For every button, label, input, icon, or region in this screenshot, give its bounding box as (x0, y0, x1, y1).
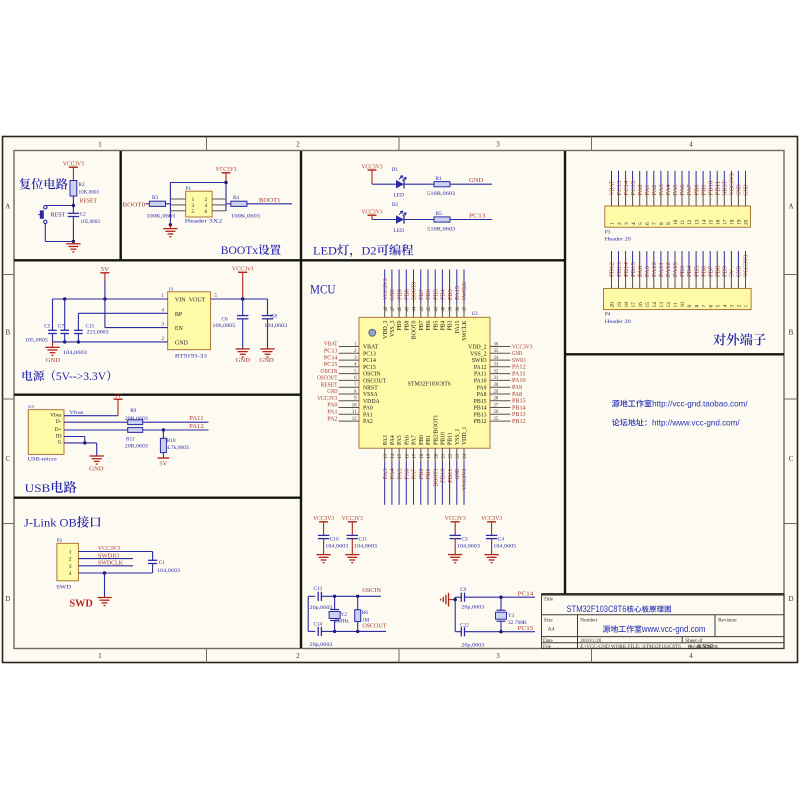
svg-text:R10: R10 (167, 438, 176, 444)
svg-text:15: 15 (398, 453, 403, 458)
svg-text:C1: C1 (159, 560, 165, 566)
section title 复位电路 (19, 178, 67, 189)
svg-text:2016/1/26: 2016/1/26 (580, 638, 601, 644)
svg-text:R6: R6 (362, 610, 368, 616)
ground power left (52, 342, 54, 347)
svg-text:38: 38 (456, 306, 461, 311)
svg-text:510R,0603: 510R,0603 (427, 191, 455, 197)
svg-text:Header 3X2: Header 3X2 (185, 218, 223, 224)
svg-text:2: 2 (69, 557, 72, 563)
svg-text:PC13: PC13 (324, 349, 338, 355)
crystal Y3 32.768K (500, 597, 502, 610)
svg-text:2: 2 (737, 305, 743, 308)
svg-text:C9: C9 (460, 587, 466, 593)
svg-text:D: D (5, 595, 10, 603)
svg-text:VSSA: VSSA (363, 392, 379, 398)
svg-text:1: 1 (744, 305, 750, 308)
MCU U2 STM32F103C8T6 body (359, 317, 490, 448)
pin stubs P1 (170, 198, 185, 200)
svg-text:PA8: PA8 (638, 266, 644, 277)
svg-text:PB9: PB9 (397, 289, 403, 300)
svg-text:PA4: PA4 (390, 435, 396, 445)
svg-text:2: 2 (296, 652, 300, 660)
wire led D2 (372, 219, 396, 221)
header P4 box (604, 288, 752, 309)
LED D2 (396, 215, 404, 223)
svg-text:PB15: PB15 (631, 262, 637, 277)
svg-text:OSCOUT: OSCOUT (363, 379, 387, 385)
pin1 marker circle (369, 329, 376, 336)
svg-text:6: 6 (205, 209, 208, 215)
capacitor C13 (317, 592, 319, 601)
svg-text:P4: P4 (605, 312, 611, 318)
svg-text:C: C (5, 455, 10, 463)
svg-text:D2: D2 (392, 202, 399, 208)
svg-text:PB0: PB0 (419, 469, 425, 480)
svg-text:RESET: RESET (80, 198, 98, 204)
svg-text:2: 2 (617, 222, 623, 225)
svg-text:45: 45 (405, 306, 410, 311)
svg-text:PA11: PA11 (512, 371, 526, 377)
ground cap C11 (345, 554, 359, 556)
capacitor C12 (460, 627, 462, 636)
section divider lines (14, 151, 784, 648)
svg-text:R11: R11 (126, 436, 135, 442)
MCU right pins 36-25 (490, 346, 510, 348)
section title 对外端子 (713, 333, 766, 345)
file path (580, 644, 714, 650)
svg-text:20p,0603: 20p,0603 (461, 605, 484, 611)
MCU top pins 48-37 wires (384, 303, 386, 317)
svg-text:8: 8 (659, 222, 665, 225)
svg-text:PA12: PA12 (512, 365, 526, 371)
capacitor C2 (68, 212, 79, 214)
wire VOUT line (211, 298, 268, 300)
svg-text:SWD: SWD (56, 584, 71, 590)
svg-text:PB12: PB12 (610, 262, 616, 277)
svg-text:GND: GND (175, 341, 189, 347)
svg-text:6: 6 (708, 305, 714, 308)
svg-text:PA2: PA2 (363, 419, 373, 425)
svg-text:31: 31 (494, 376, 499, 381)
svg-text:PC14: PC14 (624, 181, 630, 196)
ground C6 (236, 348, 250, 350)
svg-text:R9: R9 (130, 408, 136, 414)
svg-text:105,0805: 105,0805 (25, 337, 48, 343)
svg-text:Vbus: Vbus (50, 413, 61, 419)
svg-text:GND: GND (744, 184, 750, 196)
capacitor C9 (460, 593, 462, 602)
svg-text:22: 22 (449, 453, 454, 458)
capacitor C14 (317, 627, 319, 636)
svg-text:8: 8 (694, 305, 700, 308)
svg-text:BP: BP (175, 312, 183, 318)
capacitor C11 (347, 534, 358, 536)
svg-text:PA11: PA11 (474, 372, 487, 378)
header P1 3x2 (186, 191, 212, 217)
svg-text:PC13: PC13 (469, 214, 486, 220)
svg-text:104,0603: 104,0603 (264, 323, 287, 329)
svg-text:PA4: PA4 (666, 184, 672, 195)
ground cap C3 (448, 554, 462, 556)
svg-text:47: 47 (391, 306, 396, 311)
svg-text:C6: C6 (222, 317, 228, 323)
svg-text:1: 1 (98, 141, 102, 149)
section title J-Link OB接口 (24, 516, 100, 530)
svg-text:PB8: PB8 (716, 266, 722, 277)
svg-text:C11: C11 (359, 536, 368, 542)
svg-text:C8: C8 (271, 314, 277, 320)
svg-text:PC15: PC15 (631, 181, 637, 196)
ground bootx (169, 225, 171, 229)
MCU left pins 1-12 (339, 346, 359, 348)
svg-text:4: 4 (69, 571, 72, 577)
resistor R1 (434, 182, 450, 187)
svg-text:B: B (789, 329, 794, 337)
svg-text:U1: U1 (169, 286, 174, 291)
svg-text:PB7: PB7 (419, 289, 425, 300)
svg-text:VDD_1: VDD_1 (462, 427, 468, 445)
svg-text:PB1: PB1 (701, 184, 707, 195)
resistor R5 (434, 217, 450, 222)
svg-text:GND: GND (327, 389, 337, 395)
svg-text:PB11: PB11 (716, 181, 722, 196)
svg-text:BOOT0: BOOT0 (412, 320, 418, 339)
svg-text:C: C (789, 455, 794, 463)
svg-text:SWIO: SWIO (512, 358, 526, 364)
svg-text:Header 20: Header 20 (605, 319, 631, 325)
svg-text:SWCLK: SWCLK (462, 320, 468, 341)
title schematic name (567, 603, 671, 614)
svg-text:PB3: PB3 (448, 289, 454, 300)
svg-text:PA2: PA2 (327, 416, 337, 422)
svg-text:PB12: PB12 (512, 419, 526, 425)
svg-text:C12: C12 (460, 622, 469, 628)
svg-text:PA1: PA1 (645, 184, 651, 195)
svg-text:A: A (788, 203, 793, 211)
svg-text:1: 1 (69, 550, 72, 556)
svg-text:PA6: PA6 (404, 435, 410, 445)
svg-text:NRST: NRST (363, 385, 378, 391)
svg-text:PA3: PA3 (659, 184, 665, 195)
svg-text:VDD_2: VDD_2 (468, 345, 486, 351)
svg-text:PC14: PC14 (363, 358, 376, 364)
svg-text:OSCOUT: OSCOUT (317, 376, 338, 382)
svg-text:PB14: PB14 (474, 406, 487, 412)
svg-text:PA7: PA7 (412, 435, 418, 445)
svg-text:Size: Size (544, 617, 554, 623)
svg-text:27: 27 (494, 403, 499, 408)
svg-text:SWIO: SWIO (472, 358, 487, 364)
svg-text:PA15: PA15 (673, 262, 679, 277)
svg-text:17: 17 (413, 453, 418, 458)
svg-text:PA2: PA2 (652, 184, 658, 195)
svg-text:PA9: PA9 (512, 385, 522, 391)
svg-text:PA3: PA3 (383, 435, 389, 445)
svg-text:Number: Number (580, 617, 597, 623)
svg-text:LED: LED (394, 193, 405, 199)
svg-text:20: 20 (610, 302, 616, 308)
svg-text:14: 14 (652, 302, 658, 308)
resistor R2 (70, 181, 77, 197)
svg-text:7: 7 (652, 222, 658, 225)
svg-text:PA4: PA4 (390, 469, 396, 480)
svg-text:104,0605: 104,0605 (493, 544, 516, 550)
wire swd rows (78, 551, 152, 553)
svg-text:PA12: PA12 (666, 262, 672, 277)
svg-text:5V: 5V (159, 461, 168, 467)
svg-text:ID: ID (56, 433, 62, 439)
svg-text:U2: U2 (472, 312, 479, 317)
inner frame (14, 151, 784, 649)
svg-text:PB10: PB10 (441, 432, 447, 445)
svg-text:100K,0603: 100K,0603 (146, 214, 176, 220)
svg-text:16: 16 (716, 219, 722, 225)
svg-text:BOOT0: BOOT0 (412, 282, 418, 300)
wire ID (64, 436, 85, 438)
svg-text:GND: GND (236, 358, 251, 364)
svg-text:Y3: Y3 (508, 613, 515, 619)
svg-text:C5: C5 (44, 323, 50, 329)
svg-text:4: 4 (631, 222, 637, 225)
svg-text:20: 20 (434, 453, 439, 458)
section title USB电路 (25, 481, 77, 495)
svg-text:PA1: PA1 (363, 412, 373, 418)
svg-text:5: 5 (716, 305, 722, 308)
svg-text:R4: R4 (233, 195, 239, 201)
svg-text:PB5: PB5 (433, 320, 439, 330)
svg-text:12: 12 (666, 302, 672, 308)
svg-text:MCU: MCU (310, 283, 336, 297)
svg-text:3: 3 (624, 222, 630, 225)
section title LED灯 D2可编程 (313, 244, 413, 257)
svg-text:13: 13 (384, 453, 389, 458)
svg-text:VBAT: VBAT (324, 342, 338, 348)
svg-text:10: 10 (352, 403, 357, 408)
svg-text:GND: GND (737, 265, 743, 277)
svg-text:P1: P1 (186, 187, 192, 192)
svg-text:PB8: PB8 (405, 289, 411, 300)
resistor R3 (146, 203, 150, 205)
svg-text:PB11: PB11 (448, 469, 454, 483)
svg-text:PA10: PA10 (512, 378, 526, 384)
margin labels (5, 141, 793, 661)
svg-text:PA15: PA15 (455, 286, 461, 300)
svg-text:46: 46 (398, 306, 403, 311)
schematic sheet background (3, 137, 798, 663)
ground usb (90, 455, 104, 457)
svg-text:C4: C4 (498, 536, 504, 542)
svg-text:PC14: PC14 (324, 355, 338, 361)
svg-text:PB2/BOOT1: PB2/BOOT1 (433, 415, 439, 445)
svg-text:PB14: PB14 (512, 405, 526, 411)
svg-text:29: 29 (494, 390, 499, 395)
svg-text:VBAT: VBAT (363, 345, 379, 351)
svg-text:4.7k,0603: 4.7k,0603 (167, 445, 189, 451)
svg-text:OSCIN: OSCIN (321, 369, 339, 375)
svg-text:PB13: PB13 (617, 262, 623, 277)
svg-text:www.vcc-gnd.com: www.vcc-gnd.com (641, 623, 706, 634)
svg-text:PA6: PA6 (680, 184, 686, 195)
svg-text:16: 16 (638, 302, 644, 308)
svg-text:C7: C7 (58, 323, 64, 329)
title block frame (542, 594, 785, 648)
svg-text:12: 12 (687, 219, 693, 225)
svg-text:PB9: PB9 (397, 320, 403, 330)
svg-text:10: 10 (680, 302, 686, 308)
svg-text:D-: D- (56, 419, 62, 425)
svg-text:30: 30 (494, 383, 499, 388)
svg-text:PB0: PB0 (419, 435, 425, 445)
svg-text:100K,0603: 100K,0603 (231, 214, 261, 220)
svg-text:REST: REST (51, 213, 66, 219)
wire bootx loop (170, 182, 226, 184)
svg-text:BOOT1: BOOT1 (433, 469, 439, 487)
svg-text:OSCOUT: OSCOUT (362, 624, 386, 630)
capacitor C6 (242, 299, 244, 316)
svg-text:44: 44 (413, 306, 418, 311)
svg-text:PC15: PC15 (363, 365, 376, 371)
svg-text:SWDIO: SWDIO (98, 553, 120, 559)
svg-text:VCC3V3: VCC3V3 (462, 469, 468, 491)
svg-text:PB11: PB11 (448, 432, 454, 445)
crystal Y2 8MHz (334, 596, 336, 609)
svg-text:PA3: PA3 (383, 469, 389, 480)
svg-text:D+: D+ (55, 427, 62, 433)
svg-text:http://www.vcc-gnd.com/: http://www.vcc-gnd.com/ (652, 418, 740, 428)
section title BOOTx设置 (221, 243, 281, 257)
svg-text:PB3: PB3 (448, 320, 454, 330)
svg-text:11: 11 (680, 220, 686, 225)
svg-text:PC14: PC14 (518, 591, 534, 597)
svg-text:VCC3V3: VCC3V3 (317, 396, 337, 402)
svg-text:PB12: PB12 (474, 419, 487, 425)
svg-text:R1: R1 (436, 176, 443, 182)
wire osc1 left bus (307, 596, 309, 631)
svg-text:9: 9 (666, 222, 672, 225)
svg-text:9: 9 (687, 305, 693, 308)
svg-text:GND: GND (390, 289, 396, 300)
svg-text:104,0603: 104,0603 (325, 544, 348, 550)
svg-text:PB6: PB6 (426, 320, 432, 330)
wire BP line (78, 312, 167, 314)
svg-text:106,0805: 106,0805 (212, 323, 235, 329)
svg-text:R5: R5 (436, 211, 443, 217)
svg-text:VBAT: VBAT (610, 180, 616, 195)
power 5V R10 (158, 457, 170, 459)
svg-text:6: 6 (645, 222, 651, 225)
svg-text:PA7: PA7 (412, 469, 418, 480)
svg-text:104,0603: 104,0603 (457, 544, 480, 550)
svg-text:20p,0603: 20p,0603 (310, 605, 333, 611)
svg-text:LED: LED (313, 246, 337, 258)
svg-text:21: 21 (442, 453, 447, 458)
USB connector U3 (28, 410, 64, 455)
svg-text:PA11: PA11 (659, 262, 665, 277)
wire Vbus (64, 415, 118, 417)
svg-text:GND: GND (89, 466, 104, 472)
svg-text:34: 34 (494, 356, 499, 361)
svg-text:104,0603: 104,0603 (157, 568, 180, 574)
svg-text:PA11: PA11 (189, 416, 204, 422)
svg-text:PB13: PB13 (474, 412, 487, 418)
svg-text:13: 13 (694, 219, 700, 225)
svg-text:PB1: PB1 (426, 435, 432, 445)
ground swd (97, 597, 111, 599)
svg-text:PC13: PC13 (617, 181, 623, 196)
wire osc32 bus (454, 597, 456, 632)
svg-text:PC15: PC15 (518, 626, 534, 632)
wire swd gnd (103, 571, 106, 574)
title vcc-gnd studio (603, 623, 706, 634)
svg-text:VSS_3: VSS_3 (390, 320, 396, 337)
svg-text:D: D (788, 595, 793, 603)
svg-text:3: 3 (496, 141, 500, 149)
svg-text:8MHz: 8MHz (335, 619, 350, 625)
svg-text:510R,0603: 510R,0603 (427, 227, 455, 233)
svg-text:17: 17 (631, 302, 637, 308)
svg-text:SWCLK: SWCLK (462, 281, 468, 300)
svg-text:Title: Title (544, 597, 554, 603)
wire led D1 (372, 183, 396, 185)
svg-text:18: 18 (624, 302, 630, 308)
svg-text:NRST: NRST (723, 180, 729, 195)
svg-text:Sheet of: Sheet of (685, 637, 702, 644)
svg-text:SWDCLK: SWDCLK (98, 561, 124, 567)
svg-text:RESET: RESET (321, 382, 338, 388)
svg-text:10: 10 (673, 219, 679, 225)
resistor R9 (128, 420, 143, 425)
svg-text:40: 40 (442, 306, 447, 311)
svg-text:C14: C14 (314, 621, 323, 627)
ground cap C4 (484, 554, 498, 556)
junction bootx gnd (169, 223, 172, 226)
wire G gnd (64, 442, 97, 444)
svg-text:VSS_2: VSS_2 (470, 351, 487, 357)
junction RESET (72, 204, 75, 207)
svg-text:16: 16 (405, 453, 410, 458)
svg-text:48: 48 (384, 306, 389, 311)
svg-text:42: 42 (427, 306, 432, 311)
svg-text:12: 12 (352, 417, 357, 422)
svg-text:PB10: PB10 (708, 181, 714, 196)
svg-text:OSCIN: OSCIN (362, 588, 381, 594)
svg-text:OSCIN: OSCIN (363, 372, 381, 378)
svg-text:PA5: PA5 (397, 435, 403, 445)
wire D+ PA12 (64, 429, 128, 431)
svg-text:2: 2 (296, 141, 300, 149)
header P2 SWD (57, 543, 79, 581)
svg-text:.SchDoc: .SchDoc (701, 644, 718, 650)
svg-text:Vbus: Vbus (69, 410, 83, 416)
svg-text:USB: USB (25, 481, 51, 495)
svg-text:33: 33 (494, 363, 499, 368)
svg-text:PB0: PB0 (694, 184, 700, 195)
svg-text:39: 39 (449, 306, 454, 311)
svg-text:PB15: PB15 (474, 399, 487, 405)
wire EN line (104, 299, 106, 328)
svg-text:25: 25 (494, 417, 499, 422)
svg-text:BOOT0: BOOT0 (122, 202, 145, 208)
svg-text:VSS_1: VSS_1 (455, 428, 461, 445)
svg-text:4: 4 (723, 305, 729, 308)
capacitor C10 (318, 534, 329, 536)
svg-text:20p,0603: 20p,0603 (461, 642, 484, 648)
capacitor C5 (52, 299, 54, 330)
svg-text:RT9193-33: RT9193-33 (175, 353, 207, 359)
svg-text:11: 11 (352, 410, 357, 415)
svg-text:GND: GND (259, 358, 274, 364)
